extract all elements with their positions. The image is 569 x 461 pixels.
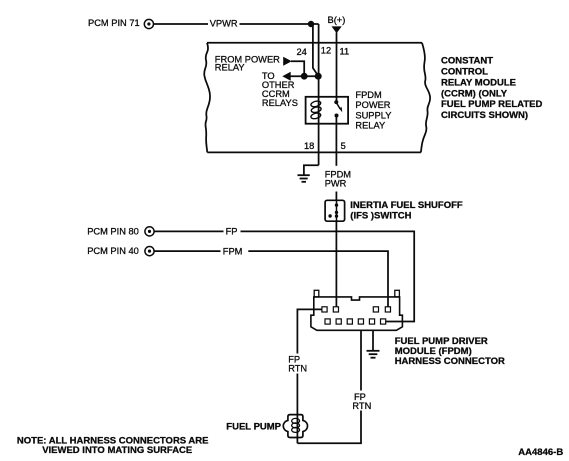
svg-text:FUEL PUMP RELATED: FUEL PUMP RELATED [441,99,542,110]
svg-text:(CCRM) (ONLY: (CCRM) (ONLY [441,88,508,99]
svg-text:PCM PIN 80: PCM PIN 80 [87,227,139,237]
CCRM label [441,56,542,122]
svg-text:FUEL PUMP: FUEL PUMP [226,421,281,432]
node PCM PIN 80 terminal [87,227,154,237]
relay K1 FPDM power supply relay [306,97,349,124]
svg-text:5: 5 [341,141,346,151]
connector pins row 2 [325,319,386,324]
IFS switch label [350,200,463,222]
wire VPWR [154,19,319,29]
svg-text:RTN: RTN [352,401,371,411]
svg-text:FPM: FPM [223,246,243,256]
svg-text:FP: FP [226,227,238,237]
wire FP RTN middle [297,330,371,443]
svg-text:PCM PIN 71: PCM PIN 71 [88,18,140,28]
svg-text:PCM PIN 40: PCM PIN 40 [87,246,139,256]
svg-text:PWR: PWR [325,178,347,188]
inertia fuel shutoff switch S1 [325,200,345,221]
svg-text:VPWR: VPWR [210,19,238,29]
connector label [395,336,505,367]
node B(+) [328,15,346,33]
arrow FROM POWER RELAY [215,55,304,77]
wire FPM [154,246,388,306]
relay label [355,90,391,131]
wire FP [154,227,414,322]
svg-text:RELAYS: RELAYS [262,98,298,108]
arrow TO OTHER CCRM RELAYS [262,71,318,108]
node PCM PIN 40 terminal [87,246,154,256]
junction node on coil wire [315,73,322,80]
svg-text:12: 12 [321,46,331,56]
svg-text:FPDM: FPDM [355,90,381,100]
ground (FPDM) [367,330,380,357]
fuel pump M1 [283,415,307,438]
svg-text:(IFS )SWITCH: (IFS )SWITCH [350,211,411,222]
note text [17,436,209,457]
svg-text:SUPPLY: SUPPLY [355,110,391,120]
junction node at pin24/relay wire [301,73,308,80]
wire pin 12 to relay coil and pin 18 [318,24,320,165]
wire IFS switch to connector pin [335,221,337,307]
ground (CCRM pin 18) [298,165,319,182]
svg-text:RTN: RTN [288,364,307,374]
svg-text:VIEWED INTO MATING SURFACE: VIEWED INTO MATING SURFACE [42,445,192,456]
node PCM PIN 71 terminal [88,18,153,28]
svg-text:INERTIA FUEL SHUFOFF: INERTIA FUEL SHUFOFF [350,200,463,211]
wire B(+) to relay switch pin 11 [336,33,338,102]
junction VPWR node [308,21,314,27]
svg-text:B(+): B(+) [328,15,346,25]
svg-text:CIRCUITS SHOWN): CIRCUITS SHOWN) [441,110,528,121]
svg-text:RELAY: RELAY [215,63,245,73]
svg-text:24: 24 [297,47,307,57]
svg-text:AA4846-B: AA4846-B [518,447,563,458]
wire pin 24 [313,24,318,76]
svg-text:POWER: POWER [355,100,390,110]
wire FP RTN left [288,309,322,443]
svg-text:RELAY: RELAY [355,121,385,131]
svg-text:18: 18 [304,141,314,151]
connector pins row 1 [322,307,391,312]
svg-text:CONTROL: CONTROL [441,67,488,78]
svg-text:RELAY MODULE: RELAY MODULE [441,77,516,88]
CCRM module outline [421,43,430,153]
svg-text:HARNESS CONNECTOR: HARNESS CONNECTOR [395,356,505,367]
wire pin 5 FPDM PWR [325,116,351,201]
svg-text:11: 11 [340,47,350,57]
connector J1 FPDM harness connector outline [311,290,403,330]
svg-text:CONSTANT: CONSTANT [441,56,493,67]
